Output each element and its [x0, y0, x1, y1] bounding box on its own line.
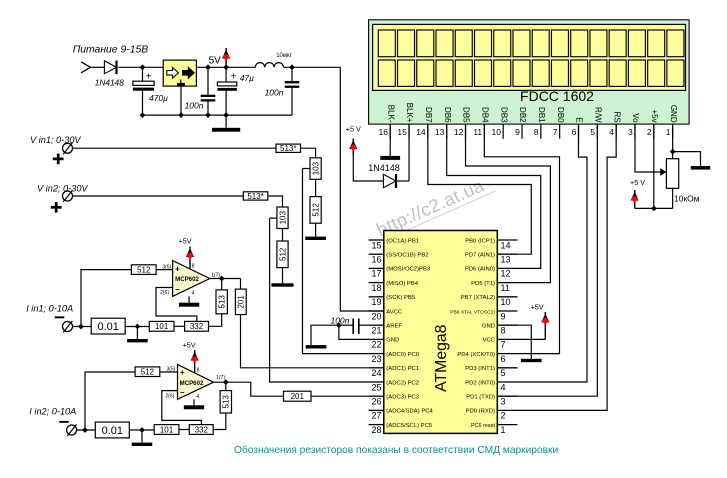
svg-text:PD0 (RXD): PD0 (RXD): [466, 409, 495, 415]
svg-text:513: 513: [222, 395, 231, 409]
svg-text:332: 332: [195, 425, 209, 434]
svg-text:+: +: [175, 264, 180, 273]
svg-text:8: 8: [192, 263, 195, 269]
svg-text:1(7): 1(7): [211, 272, 220, 278]
svg-text:–: –: [175, 285, 180, 294]
svg-text:2(6): 2(6): [160, 290, 169, 296]
svg-text:10: 10: [501, 297, 511, 307]
svg-text:19: 19: [371, 297, 381, 307]
svg-text:0.01: 0.01: [97, 321, 118, 333]
svg-text:4: 4: [196, 394, 199, 400]
svg-text:2(6): 2(6): [165, 394, 174, 400]
svg-text:E: E: [575, 117, 584, 122]
svg-text:+5v: +5v: [650, 109, 659, 122]
svg-text:11: 11: [501, 283, 510, 293]
svg-text:1(7): 1(7): [216, 375, 225, 381]
svg-text:470µ: 470µ: [149, 93, 168, 103]
svg-text:(ADC1) PC1: (ADC1) PC1: [386, 366, 419, 372]
svg-text:6: 6: [501, 354, 506, 364]
svg-text:101: 101: [155, 322, 169, 331]
svg-text:1: 1: [666, 127, 671, 137]
svg-text:2: 2: [501, 411, 506, 421]
svg-text:(SCK) PB5: (SCK) PB5: [386, 295, 416, 301]
svg-text:(OC1A) PB1: (OC1A) PB1: [386, 238, 419, 244]
svg-text:0.01: 0.01: [102, 425, 123, 437]
svg-text:PD7 (AIN1): PD7 (AIN1): [465, 253, 495, 259]
svg-text:(ADC4/SDA) PC4: (ADC4/SDA) PC4: [386, 409, 433, 415]
svg-text:18: 18: [371, 283, 381, 293]
svg-text:3(5): 3(5): [162, 265, 171, 271]
svg-text:(ADC5/SCL) PC5: (ADC5/SCL) PC5: [386, 423, 433, 429]
svg-text:8: 8: [501, 326, 506, 336]
svg-text:+5 V: +5 V: [630, 178, 645, 187]
svg-text:26: 26: [371, 397, 381, 407]
svg-text:PD6 (AIN0): PD6 (AIN0): [465, 267, 495, 273]
svg-text:PB7 (XTAL2): PB7 (XTAL2): [461, 295, 495, 301]
svg-text:12: 12: [501, 269, 511, 279]
svg-text:513*: 513*: [280, 144, 296, 153]
svg-text:PD5 (T1): PD5 (T1): [471, 281, 495, 287]
svg-text:PB0 (ICP1): PB0 (ICP1): [465, 238, 495, 244]
svg-text:20: 20: [371, 311, 381, 321]
svg-text:16: 16: [379, 127, 389, 137]
svg-text:PD2 (INT0): PD2 (INT0): [465, 380, 495, 386]
svg-text:13: 13: [435, 127, 445, 137]
svg-text:100n: 100n: [265, 88, 284, 98]
svg-text:15: 15: [397, 127, 407, 137]
svg-text:FDCC 1602: FDCC 1602: [520, 88, 594, 104]
svg-text:103: 103: [311, 161, 320, 175]
svg-text:VCC: VCC: [483, 338, 496, 344]
svg-text:512: 512: [141, 368, 155, 377]
svg-text:DB3: DB3: [499, 107, 508, 123]
svg-text:6: 6: [572, 127, 577, 137]
svg-text:AREF: AREF: [386, 324, 402, 330]
svg-text:25: 25: [371, 382, 381, 392]
svg-text:I in1; 0-10A: I in1; 0-10A: [26, 304, 73, 314]
svg-text:100n: 100n: [185, 101, 204, 111]
svg-text:2: 2: [647, 127, 652, 137]
svg-text:513*: 513*: [247, 192, 263, 201]
svg-text:4: 4: [192, 290, 195, 296]
svg-text:9: 9: [515, 127, 520, 137]
svg-text:11: 11: [473, 127, 482, 137]
svg-text:10: 10: [492, 127, 502, 137]
svg-text:1N4148: 1N4148: [368, 163, 400, 173]
svg-text:23: 23: [371, 354, 381, 364]
svg-text:DB0: DB0: [556, 107, 565, 123]
svg-text:PD4 (XCK/T0): PD4 (XCK/T0): [457, 352, 495, 358]
svg-text:101: 101: [160, 425, 174, 434]
svg-text:(MISO) PB4: (MISO) PB4: [386, 281, 418, 287]
svg-text:PB6 XTAL VTOSC1): PB6 XTAL VTOSC1): [450, 309, 495, 315]
svg-text:I in2; 0-10A: I in2; 0-10A: [29, 407, 76, 417]
svg-text:201: 201: [291, 392, 305, 401]
svg-text:1: 1: [501, 425, 506, 435]
svg-text:(ADC3) PC3: (ADC3) PC3: [386, 395, 419, 401]
svg-text:13: 13: [501, 255, 511, 265]
svg-text:DB1: DB1: [537, 107, 546, 123]
svg-text:RS: RS: [612, 111, 621, 122]
svg-text:+: +: [180, 368, 185, 377]
svg-text:+5V: +5V: [183, 341, 196, 350]
svg-text:47µ: 47µ: [240, 73, 254, 83]
svg-text:7: 7: [553, 127, 558, 137]
svg-text:16: 16: [371, 255, 381, 265]
svg-text:(ADC2) PC2: (ADC2) PC2: [386, 380, 419, 386]
svg-text:22: 22: [371, 340, 381, 350]
svg-text:4: 4: [609, 127, 614, 137]
svg-text:MCP602: MCP602: [180, 380, 204, 387]
svg-text:Питание 9-15В: Питание 9-15В: [73, 45, 149, 56]
svg-text:5: 5: [590, 127, 595, 137]
svg-text:9: 9: [501, 311, 506, 321]
svg-text:10мкг: 10мкг: [276, 53, 292, 59]
svg-text:512: 512: [311, 203, 320, 217]
svg-text:8: 8: [197, 367, 200, 373]
svg-text:3(5): 3(5): [166, 366, 175, 372]
svg-text:ATMega8: ATMega8: [433, 324, 450, 392]
svg-text:+5V: +5V: [179, 237, 192, 246]
svg-text:8: 8: [534, 127, 539, 137]
svg-text:(MOSI/OC2)PB3: (MOSI/OC2)PB3: [386, 267, 431, 273]
svg-text:100n: 100n: [330, 315, 349, 325]
svg-text:27: 27: [371, 411, 381, 421]
svg-text:17: 17: [371, 269, 381, 279]
svg-text:MCP602: MCP602: [175, 276, 199, 283]
svg-text:PD1 (TXD): PD1 (TXD): [466, 395, 495, 401]
svg-text:DB7: DB7: [424, 107, 433, 123]
svg-text:Vo: Vo: [631, 113, 640, 123]
svg-text:7: 7: [501, 340, 506, 350]
svg-text:513: 513: [218, 295, 227, 309]
svg-text:GND: GND: [386, 338, 399, 344]
svg-text:1N4148: 1N4148: [95, 78, 124, 88]
svg-text:R/W: R/W: [593, 107, 602, 123]
svg-text:5V: 5V: [209, 56, 222, 67]
svg-text:+: +: [231, 71, 237, 82]
svg-text:+5 V: +5 V: [346, 125, 361, 134]
svg-text:10кОм: 10кОм: [674, 194, 700, 204]
svg-text:V in2; 0-30V: V in2; 0-30V: [37, 184, 88, 194]
svg-text:PC6 reset: PC6 reset: [471, 423, 495, 429]
svg-text:GND: GND: [669, 105, 678, 123]
svg-text:V in1; 0-30V: V in1; 0-30V: [30, 135, 81, 145]
svg-text:DB2: DB2: [518, 107, 527, 123]
svg-text:103: 103: [278, 211, 287, 225]
svg-text:4: 4: [501, 382, 506, 392]
svg-text:512: 512: [137, 265, 151, 274]
svg-text:332: 332: [190, 322, 204, 331]
svg-text:21: 21: [371, 326, 381, 336]
svg-text:5: 5: [501, 368, 506, 378]
svg-text:12: 12: [454, 127, 464, 137]
svg-text:3: 3: [628, 127, 633, 137]
svg-text:201: 201: [237, 295, 246, 309]
svg-text:AVCC: AVCC: [386, 309, 403, 315]
svg-text:(SS/OC1B) PB2: (SS/OC1B) PB2: [386, 253, 428, 259]
svg-text:GND: GND: [482, 324, 495, 330]
svg-text:14: 14: [501, 240, 511, 250]
svg-text:–: –: [180, 388, 185, 397]
svg-text:28: 28: [371, 425, 381, 435]
svg-text:512: 512: [278, 247, 287, 261]
svg-text:DB4: DB4: [480, 107, 489, 123]
svg-text:15: 15: [371, 240, 381, 250]
svg-text:+5V: +5V: [531, 302, 544, 311]
svg-text:3: 3: [501, 397, 506, 407]
svg-text:BLK-: BLK-: [386, 105, 395, 123]
svg-text:PD3 (INT1): PD3 (INT1): [465, 366, 495, 372]
svg-text:14: 14: [416, 127, 426, 137]
svg-text:24: 24: [371, 368, 381, 378]
svg-text:DB5: DB5: [462, 107, 471, 123]
svg-text:(ADC0) PC0: (ADC0) PC0: [386, 352, 419, 358]
svg-text:DB6: DB6: [443, 107, 452, 123]
svg-text:Обозначения резисторов показан: Обозначения резисторов показаны в соотве…: [234, 444, 558, 456]
svg-text:BLK+: BLK+: [405, 103, 414, 123]
